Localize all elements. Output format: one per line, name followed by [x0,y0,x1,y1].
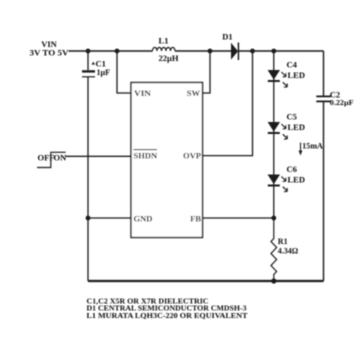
wire left down to bottom rail [87,218,89,281]
wire SW riser [203,51,211,93]
wire OVP riser [203,51,253,156]
LED C5 [268,122,288,139]
svg-text:22µH: 22µH [158,53,178,63]
svg-text:OFF: OFF [38,153,55,163]
svg-text:VIN: VIN [134,88,152,98]
svg-text:C5: C5 [287,111,297,121]
svg-text:C4: C4 [287,59,298,69]
svg-text:15mA: 15mA [302,141,323,150]
svg-text:OVP: OVP [183,151,201,161]
svg-text:3V TO 5V: 3V TO 5V [30,48,70,58]
resistor R1 [271,218,277,281]
svg-text:ON: ON [54,153,68,163]
wire SHDN [66,155,131,157]
junction GND tap [86,216,91,221]
capacitor C1 [87,51,89,70]
wire FB [203,217,274,219]
junction at OVP tap [250,49,255,54]
svg-text:1µF: 1µF [97,68,111,77]
svg-text:C6: C6 [287,164,297,174]
svg-text:4.34Ω: 4.34Ω [278,247,299,256]
svg-text:FB: FB [190,213,201,223]
junction at C1 tap [86,49,91,54]
junction at LED chain top [271,49,276,54]
wire VIN pin drop [117,51,131,93]
wire top rail to diode [175,50,231,52]
LED C4 [268,70,288,87]
inductor L1 [153,47,176,51]
junction FB / LED bottom [271,216,276,221]
svg-text:0.22µF: 0.22µF [330,99,354,107]
svg-text:LED: LED [288,175,305,185]
wire top rail input [69,50,153,52]
svg-text:R1: R1 [278,237,288,246]
svg-text:LED: LED [288,70,305,80]
LED C6 [268,175,288,192]
bottom rail [88,280,324,282]
wire GND [88,217,131,219]
svg-text:GND: GND [134,213,153,223]
junction at VIN tap [115,49,120,54]
svg-text:C2: C2 [330,89,340,99]
svg-text:LED: LED [288,122,305,132]
svg-text:D1: D1 [222,32,232,42]
wire top rail after diode [238,50,323,52]
IC U1 box [131,83,203,238]
svg-text:L1 MURATA LQH3C-220 OR EQUIVAL: L1 MURATA LQH3C-220 OR EQUIVALENT [87,311,248,320]
svg-text:SHDN: SHDN [134,151,158,161]
junction at SW tap [208,49,213,54]
wire LED chain [273,51,275,218]
diode D1 [231,43,238,60]
capacitor C2 [323,51,325,96]
current annotation 15mA [300,143,302,154]
junction R1 bottom [271,278,276,283]
svg-text:L1: L1 [159,36,169,46]
svg-text:SW: SW [187,88,201,98]
svg-text:C1: C1 [96,58,106,68]
